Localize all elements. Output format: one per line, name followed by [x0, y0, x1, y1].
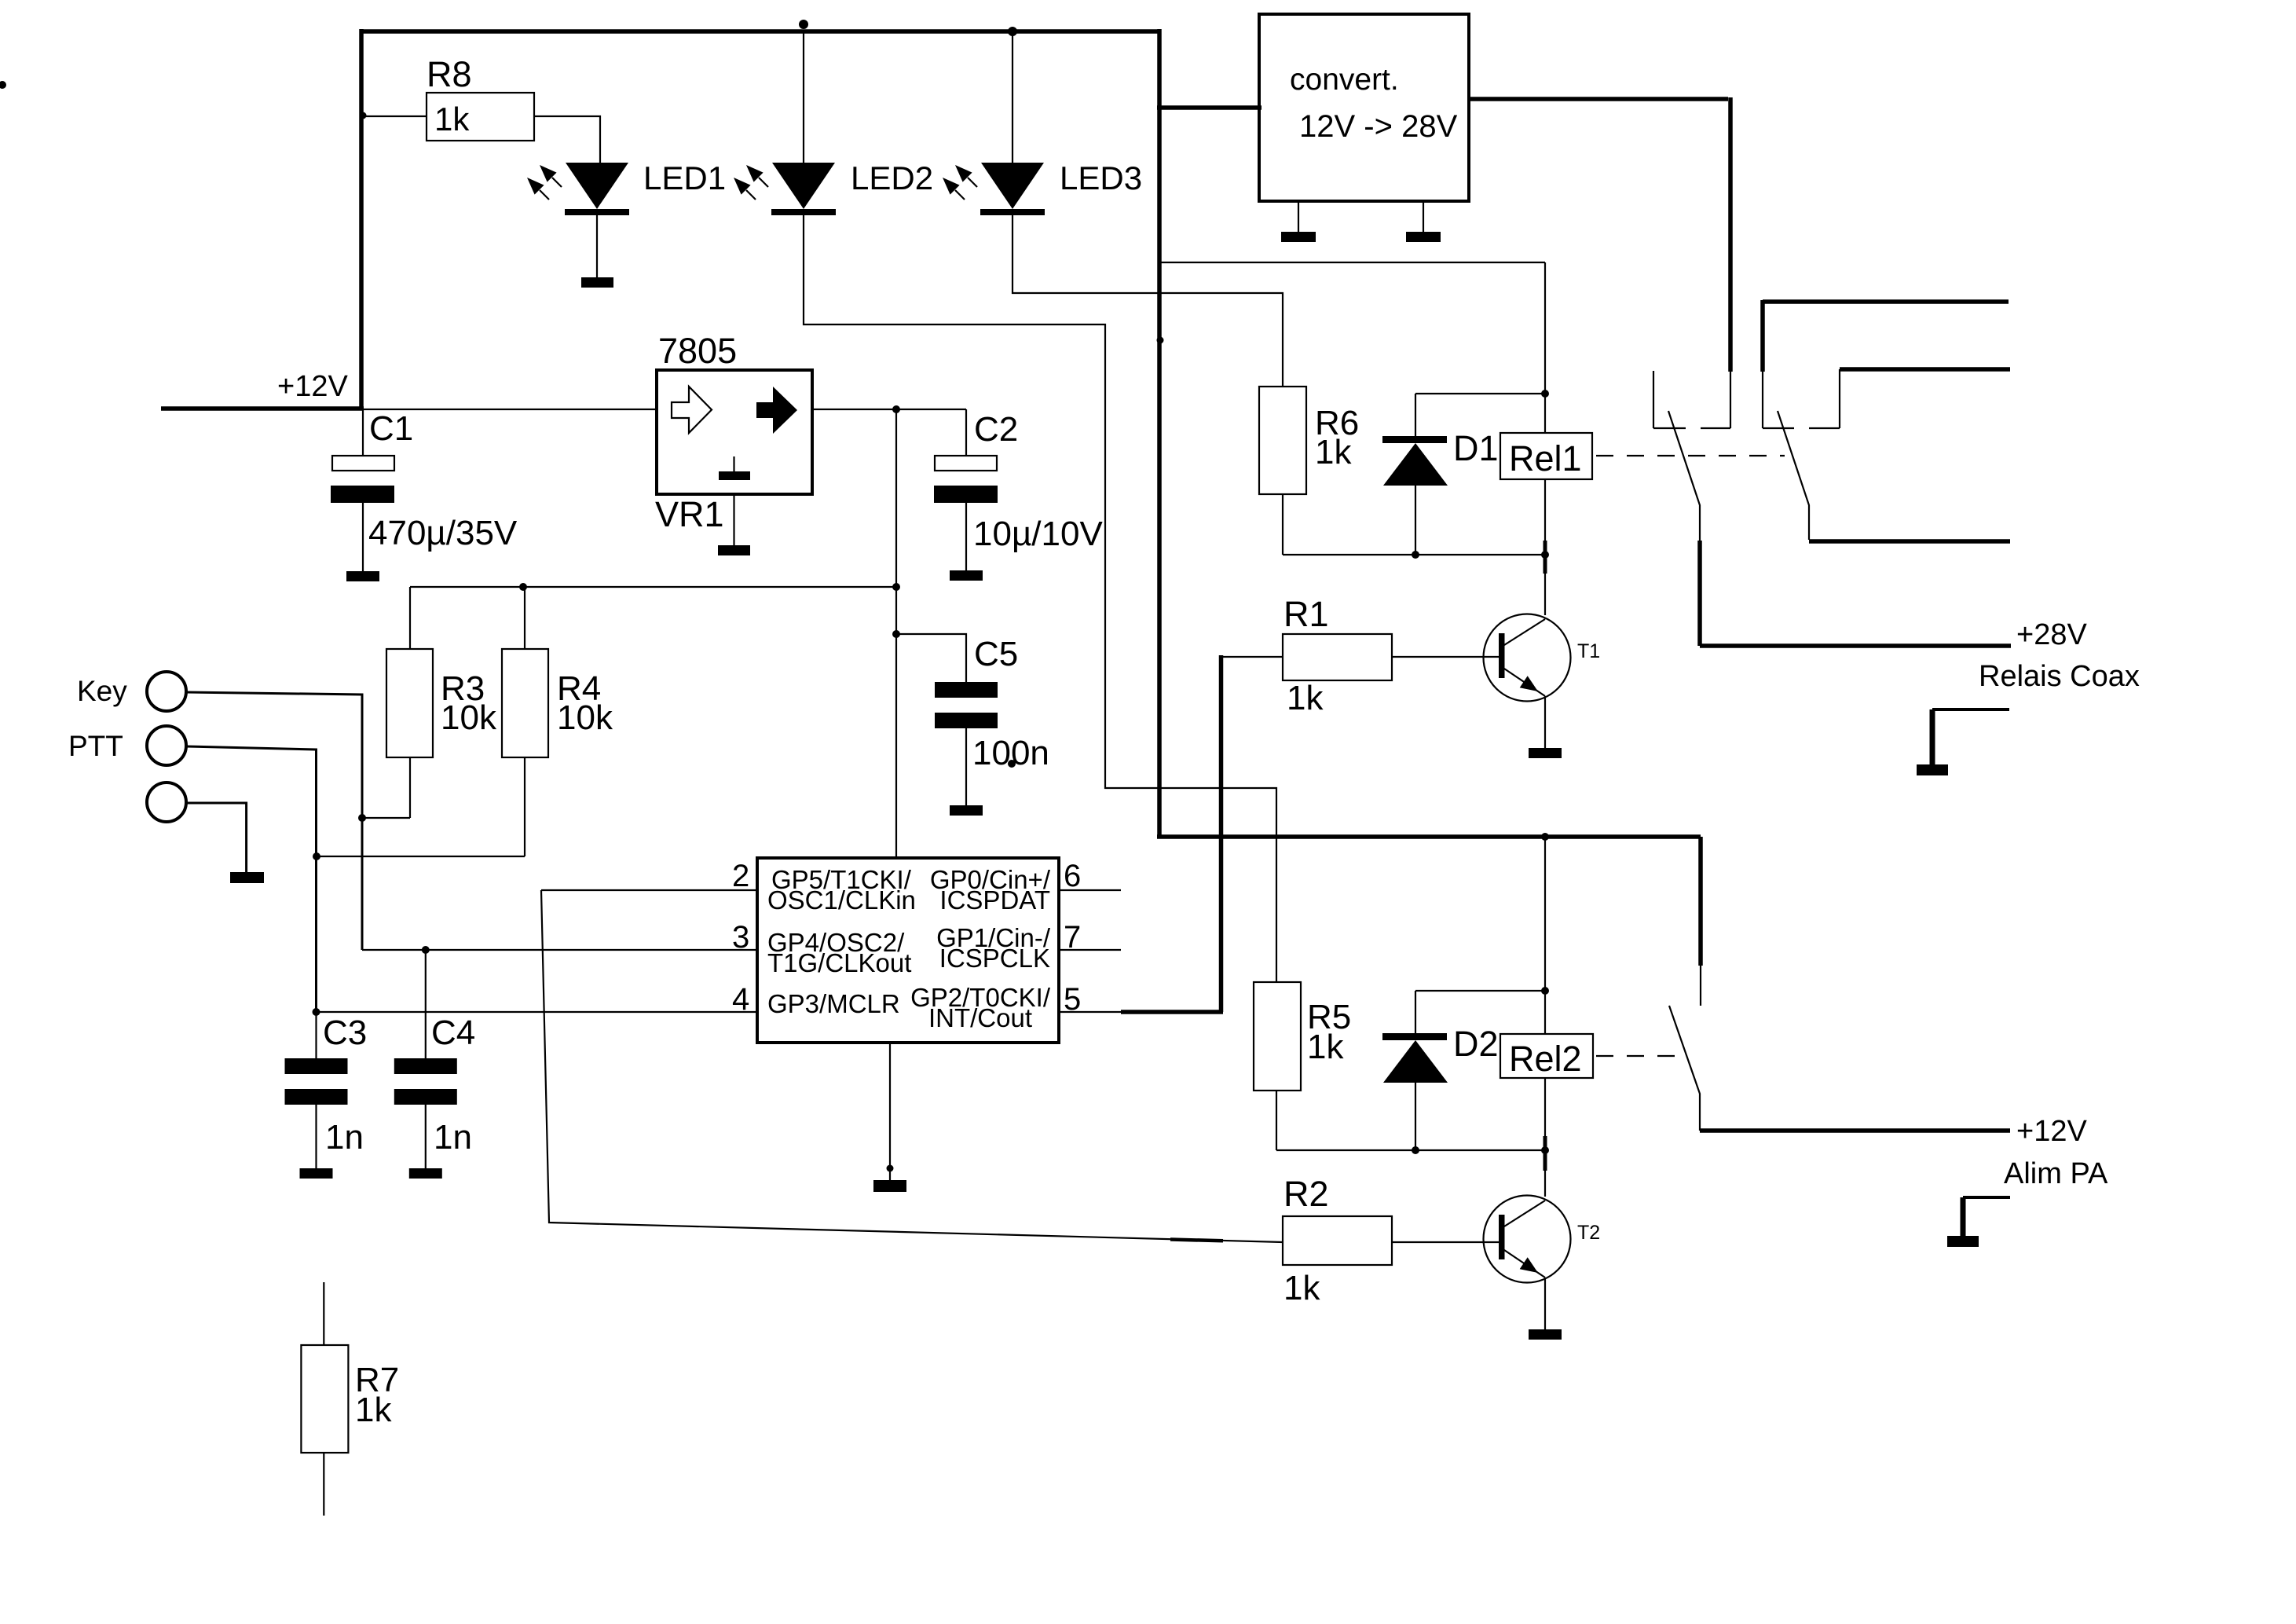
7805 internal ground	[719, 456, 750, 480]
svg-text:ICSPDAT: ICSPDAT	[939, 885, 1050, 915]
svg-text:PTT: PTT	[68, 730, 123, 762]
svg-text:convert.: convert.	[1290, 63, 1399, 97]
svg-text:R8: R8	[427, 54, 472, 94]
svg-text:R1: R1	[1283, 594, 1329, 634]
resistor R5	[1254, 982, 1301, 1091]
ground converter right	[1406, 232, 1441, 242]
svg-text:ICSPCLK: ICSPCLK	[939, 944, 1050, 973]
svg-text:1k: 1k	[1315, 433, 1352, 471]
svg-text:10µ/10V: 10µ/10V	[973, 515, 1103, 553]
node Rel2 bottom	[1541, 1146, 1549, 1154]
wire +12V bus left vertical	[359, 29, 364, 409]
wire converter gnd pin right	[1423, 201, 1424, 232]
wire pin3 GP4	[362, 949, 757, 951]
capacitor C5	[896, 634, 998, 816]
wire bus to converter input	[1157, 105, 1262, 110]
dashed Rel1 linkage	[1596, 455, 1785, 456]
wire pin2 down to R2	[541, 890, 1283, 1242]
led LED3	[943, 163, 1045, 215]
wire LED3 cathode to R6	[1013, 215, 1283, 387]
wire +12V Alim PA out	[1700, 1128, 2010, 1133]
wire Rel1 pole1 common	[1697, 541, 1702, 646]
svg-text:Alim PA: Alim PA	[2004, 1157, 2108, 1190]
wire +28V Relais Coax out	[1700, 643, 2011, 648]
wire T2 base	[1392, 1241, 1499, 1243]
node R8 tap	[360, 112, 367, 119]
7805 output arrow	[756, 387, 797, 434]
svg-text:5: 5	[1064, 982, 1081, 1017]
wire pin7 stub	[1059, 949, 1121, 951]
svg-text:6: 6	[1064, 859, 1081, 893]
wire VR1 gnd pin	[733, 494, 734, 545]
ground hook 28V return	[1917, 709, 2009, 775]
resistor R3	[386, 587, 433, 818]
wire PTT input	[186, 746, 317, 1012]
IC U1 PIC12F box	[757, 858, 1059, 1043]
transistor T1	[1484, 614, 1571, 702]
capacitor C1	[331, 409, 394, 581]
svg-text:1k: 1k	[1287, 679, 1324, 717]
wire T2 collector node	[1276, 1149, 1545, 1151]
Rel1 pole2 contact b	[1839, 369, 1840, 428]
led LED2	[734, 163, 836, 215]
ground converter left	[1281, 232, 1316, 242]
wire D1 cathode drop	[1415, 394, 1416, 436]
resistor R7	[301, 1282, 348, 1516]
wire D2 anode	[1415, 1083, 1416, 1150]
svg-text:1k: 1k	[1283, 1269, 1320, 1307]
svg-text:GP3/MCLR: GP3/MCLR	[767, 989, 900, 1018]
node Rel1 bottom	[1541, 551, 1549, 559]
ground input connector	[230, 872, 264, 883]
svg-text:C2: C2	[974, 410, 1018, 449]
node 5V rail left	[892, 583, 900, 591]
wire pin2 GP5	[541, 889, 757, 891]
Rel2 switch arm	[1669, 1006, 1700, 1131]
node Rel2 coil feed	[1541, 833, 1549, 841]
node PTT R4	[313, 852, 320, 860]
node D1 cathode junction	[1541, 390, 1549, 398]
node C5 tap	[892, 630, 900, 638]
transistor T2	[1484, 1196, 1571, 1283]
svg-text:D1: D1	[1453, 428, 1499, 468]
node D2 anode	[1412, 1146, 1419, 1154]
resistor R8	[427, 93, 534, 141]
wire PIC Vss pin	[889, 1043, 891, 1180]
wire R3 bottom to Key line	[362, 817, 410, 819]
wire Rel1 bottom thick stub	[1543, 541, 1547, 574]
wire LED3 anode	[1012, 33, 1013, 163]
capacitor C2	[934, 409, 998, 581]
wire Rel2 coil top	[1544, 837, 1546, 1034]
wire GND input	[186, 803, 247, 872]
node Key R3	[358, 814, 366, 822]
Rel2 switch contact	[1698, 837, 1703, 966]
ground T2	[1529, 1329, 1562, 1340]
Rel1 pole2 arm	[1778, 411, 1809, 540]
regulator VR1 7805 box	[657, 370, 812, 494]
node R4 tap	[519, 583, 527, 591]
ground VR1	[718, 545, 750, 555]
wire R4 bottom to PTT line	[317, 856, 525, 857]
svg-text:OSC1/CLKin: OSC1/CLKin	[767, 885, 916, 915]
Rel1 pole1 arm	[1668, 411, 1700, 542]
wire converter gnd pin left	[1298, 201, 1299, 232]
wire bus to R8	[363, 115, 427, 117]
dashed Rel2 linkage	[1596, 1055, 1678, 1057]
wire +12V to Rel2	[1157, 834, 1701, 839]
svg-text:10k: 10k	[557, 698, 613, 737]
wire pin5 stub	[1059, 1011, 1122, 1013]
wire Rel1 pole2 contact a stub	[1763, 299, 2009, 304]
wire GP2 to R1 horizontal	[1121, 1010, 1223, 1014]
node 5V at C2	[892, 405, 900, 413]
relay Rel1	[1500, 433, 1592, 479]
wire +12V bus right vertical	[1157, 29, 1162, 837]
node D2 cathode junction	[1541, 987, 1549, 995]
wire +12V rail to 7805 input	[361, 409, 657, 410]
wire R1 left	[1221, 656, 1283, 658]
resistor R2	[1283, 1216, 1392, 1265]
wire Rel1 pole2 contact a drop	[1760, 300, 1765, 372]
node on +12V vertical	[1157, 337, 1164, 344]
Rel1 pole2 contact a	[1762, 372, 1763, 428]
wire LED2 anode	[803, 32, 804, 163]
capacitor C4	[394, 950, 457, 1179]
stray dot left margin	[0, 81, 6, 89]
svg-text:+12V: +12V	[2016, 1115, 2087, 1148]
Rel1 pole1 right contact	[1730, 372, 1731, 428]
svg-text:470µ/35V: 470µ/35V	[368, 514, 518, 552]
wire R8 to LED1	[534, 116, 600, 163]
svg-text:10k: 10k	[441, 698, 497, 737]
wire 5V vertical to PIC	[895, 409, 897, 858]
svg-text:Relais Coax: Relais Coax	[1979, 660, 2140, 693]
wire LED2 cathode to R5	[804, 215, 1276, 982]
svg-text:C1: C1	[369, 409, 413, 448]
svg-text:R2: R2	[1283, 1174, 1329, 1214]
svg-text:+12V: +12V	[277, 370, 348, 403]
wire Rel2 to T2 collector	[1544, 1150, 1546, 1197]
Rel2 contact thin	[1700, 966, 1701, 1006]
Rel1 pole1 right seat	[1701, 427, 1730, 429]
node C3 tap	[313, 1008, 320, 1016]
wire LED1 cathode	[596, 215, 598, 277]
svg-text:VR1: VR1	[655, 494, 724, 534]
wire pin2 to R2 thick segment	[1170, 1240, 1223, 1241]
svg-text:2: 2	[732, 859, 749, 893]
svg-text:12V -> 28V: 12V -> 28V	[1299, 109, 1458, 144]
wire +12V input rail	[161, 406, 364, 411]
wire T1 emitter	[1544, 696, 1546, 748]
node D1 anode	[1412, 551, 1419, 559]
wire R6 bottom	[1282, 494, 1283, 555]
svg-text:100n: 100n	[972, 734, 1049, 772]
Rel1 pole2 seat a	[1763, 427, 1794, 429]
ground hook 12V return	[1947, 1197, 2010, 1247]
svg-text:Rel2: Rel2	[1509, 1039, 1582, 1079]
wire converter +28V output	[1469, 97, 1728, 101]
wire pin6 stub	[1059, 889, 1121, 891]
resistor R1	[1283, 634, 1392, 680]
svg-text:+28V: +28V	[2016, 618, 2087, 651]
wire Rel1 pole2 common out	[1809, 539, 2010, 544]
wire Rel1 to T1 collector	[1544, 555, 1546, 615]
ground PIC	[873, 1180, 906, 1192]
diode D1	[1382, 436, 1448, 486]
Rel1 pole1 left seat	[1653, 427, 1686, 429]
stray dot near 100n	[1008, 760, 1016, 768]
wire D1 cathode link	[1415, 393, 1545, 394]
node LED2 bus junction	[799, 20, 808, 29]
wire Rel2 coil bottom	[1544, 1078, 1546, 1150]
relay Rel2	[1500, 1034, 1593, 1078]
svg-text:7805: 7805	[658, 331, 737, 371]
svg-text:1k: 1k	[434, 101, 470, 137]
node LED3 bus junction	[1008, 27, 1017, 36]
svg-text:1k: 1k	[1307, 1028, 1344, 1066]
wire D1 anode	[1415, 486, 1416, 555]
7805 input arrow	[672, 387, 712, 433]
svg-text:C4: C4	[431, 1014, 475, 1052]
ground LED1	[581, 277, 613, 288]
svg-text:1n: 1n	[434, 1118, 472, 1157]
ground T1	[1529, 748, 1562, 758]
svg-text:T1G/CLKout: T1G/CLKout	[767, 948, 911, 977]
Rel1 switch pole1 left contact	[1653, 371, 1654, 428]
svg-text:C3: C3	[323, 1014, 367, 1052]
wire pin4 GP3	[317, 1011, 758, 1013]
wire Rel2 bottom thick stub	[1543, 1136, 1547, 1171]
svg-text:T2: T2	[1577, 1222, 1600, 1244]
svg-text:LED2: LED2	[851, 159, 933, 196]
connector PTT	[147, 726, 186, 765]
svg-text:D2: D2	[1453, 1024, 1499, 1064]
wire Rel1 coil feed	[1161, 262, 1545, 263]
wire +28V down to Rel1 contact	[1728, 97, 1733, 372]
wire T1 collector node	[1283, 554, 1545, 555]
svg-text:1k: 1k	[355, 1391, 392, 1429]
wire GP2 to R1 vertical	[1219, 655, 1224, 1012]
connector Key	[147, 672, 186, 711]
wire +12V top bus	[361, 29, 1159, 34]
svg-text:1n: 1n	[325, 1118, 364, 1157]
svg-text:Key: Key	[77, 675, 127, 707]
Rel1 pole2 seat b	[1809, 427, 1840, 429]
node Vss	[887, 1165, 894, 1172]
wire D2 cathode drop	[1415, 991, 1416, 1033]
wire Rel1 coil top	[1544, 262, 1546, 433]
svg-text:LED3: LED3	[1060, 159, 1142, 196]
svg-text:Rel1: Rel1	[1509, 438, 1582, 478]
svg-text:T1: T1	[1577, 640, 1600, 662]
wire 5V rail to R3 R4	[410, 586, 896, 588]
resistor R4	[502, 587, 548, 856]
connector GND	[147, 783, 186, 822]
svg-text:LED1: LED1	[643, 159, 726, 196]
wire Rel1 coil bottom	[1544, 479, 1546, 555]
diode D2	[1382, 1033, 1448, 1083]
resistor R6	[1259, 387, 1306, 494]
wire R5 bottom	[1276, 1091, 1277, 1150]
node C4 tap	[422, 946, 430, 954]
wire T1 base	[1392, 656, 1499, 658]
capacitor C3	[285, 1012, 348, 1179]
converter box	[1259, 14, 1469, 201]
wire Key input	[186, 692, 362, 950]
svg-text:INT/Cout: INT/Cout	[928, 1003, 1032, 1032]
wire 7805 output	[812, 409, 966, 410]
led LED1	[527, 163, 629, 215]
wire Rel1 pole2 contact b stub	[1840, 367, 2010, 372]
svg-text:C5: C5	[974, 635, 1018, 673]
wire T2 emitter	[1544, 1278, 1546, 1329]
wire D2 cathode link	[1415, 990, 1545, 992]
